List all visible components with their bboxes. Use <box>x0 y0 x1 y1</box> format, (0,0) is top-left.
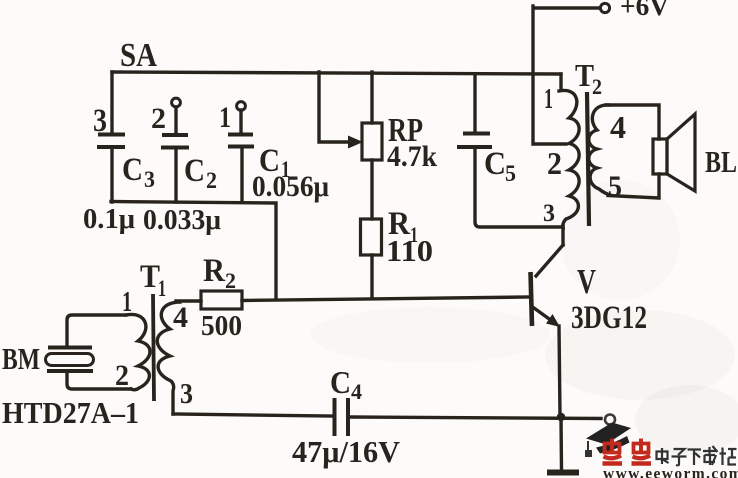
resistor R1 <box>361 160 434 298</box>
speaker BL <box>653 114 737 191</box>
svg-text:V: V <box>577 262 596 301</box>
svg-text:1: 1 <box>219 101 231 134</box>
svg-text:0.1μ: 0.1μ <box>83 204 135 235</box>
svg-text:2: 2 <box>592 74 602 99</box>
capacitor C3 <box>83 72 155 235</box>
svg-text:SA: SA <box>120 37 157 74</box>
svg-text:2: 2 <box>547 145 562 181</box>
svg-text:2: 2 <box>225 268 236 293</box>
wire T2 secondary to speaker <box>606 105 659 198</box>
svg-text:1: 1 <box>158 276 166 301</box>
transformer T2 <box>543 57 626 228</box>
svg-text:3: 3 <box>93 103 107 139</box>
wire top bus from SA to T2 tap 1 <box>112 72 561 74</box>
T1 core <box>153 294 154 401</box>
wire base line from R2 to transistor base <box>242 297 529 301</box>
transistor V 3DG12 <box>531 245 648 415</box>
wire bottom line from T1 tap 3 to C4 <box>173 414 332 416</box>
svg-text:5: 5 <box>505 161 516 186</box>
svg-text:C: C <box>484 146 506 182</box>
svg-text:2: 2 <box>151 102 166 135</box>
T1 secondary winding taps 4-3 <box>157 302 180 414</box>
svg-text:T: T <box>140 259 160 295</box>
node emitter/ground junction <box>557 413 565 421</box>
wire C5 bottom / T2 tap3 to collector <box>561 226 564 245</box>
svg-text:4: 4 <box>610 109 626 145</box>
svg-text:www.eeworm.com: www.eeworm.com <box>603 466 738 478</box>
svg-text:C: C <box>330 364 351 400</box>
capacitor C4 <box>292 364 401 469</box>
svg-text:4: 4 <box>351 379 362 404</box>
svg-text:1: 1 <box>544 83 553 115</box>
svg-text:3: 3 <box>543 200 555 227</box>
svg-text:BL: BL <box>705 144 737 179</box>
T2 primary winding taps 1-2-3 <box>559 74 562 90</box>
svg-text:47μ/16V: 47μ/16V <box>292 434 401 469</box>
svg-text:2: 2 <box>115 359 129 392</box>
wire capacitor bottom bus down to base line <box>111 202 276 300</box>
svg-text:5: 5 <box>608 170 622 203</box>
svg-text:4.7k: 4.7k <box>387 140 437 173</box>
svg-text:C: C <box>184 153 205 189</box>
T1 primary winding taps 1-2 <box>126 314 150 389</box>
capacitor C1 with open switch contact 1 <box>219 101 329 203</box>
resistor R2 <box>176 253 242 342</box>
wire +6V feed to T2 tap 2 <box>533 6 600 144</box>
svg-text:R: R <box>203 253 226 289</box>
svg-text:BM: BM <box>2 341 40 376</box>
wire bottom line from C4 to ground node <box>350 417 601 419</box>
node open terminal <box>605 415 615 425</box>
svg-text:3DG12: 3DG12 <box>571 300 647 336</box>
watermark chong chong red characters <box>603 439 652 464</box>
node +6V terminal <box>600 0 669 21</box>
capacitor C2 with open switch contact 2 <box>143 98 221 236</box>
svg-text:C: C <box>122 152 143 188</box>
transformer T1 <box>115 259 193 414</box>
svg-text:0.033μ: 0.033μ <box>143 205 221 236</box>
T2 secondary winding taps 4-5 <box>589 105 610 195</box>
svg-text:0.056μ: 0.056μ <box>252 170 329 203</box>
svg-text:HTD27A–1: HTD27A–1 <box>2 395 139 430</box>
potentiometer RP <box>319 72 437 173</box>
ground <box>547 417 579 473</box>
svg-text:4: 4 <box>173 301 188 334</box>
svg-text:2: 2 <box>206 168 217 193</box>
svg-text:3: 3 <box>180 378 193 410</box>
watermark graduation cap logo <box>585 423 631 458</box>
svg-text:1: 1 <box>122 287 132 318</box>
watermark text dianzi xiazaizhan <box>657 446 737 465</box>
svg-text:+6V: +6V <box>620 0 670 21</box>
svg-text:110: 110 <box>386 233 433 268</box>
microphone BM HTD27A-1 <box>2 315 139 430</box>
T2 core <box>587 92 589 226</box>
capacitor C5 <box>457 74 563 227</box>
svg-text:500: 500 <box>201 310 242 342</box>
svg-text:3: 3 <box>144 167 155 192</box>
